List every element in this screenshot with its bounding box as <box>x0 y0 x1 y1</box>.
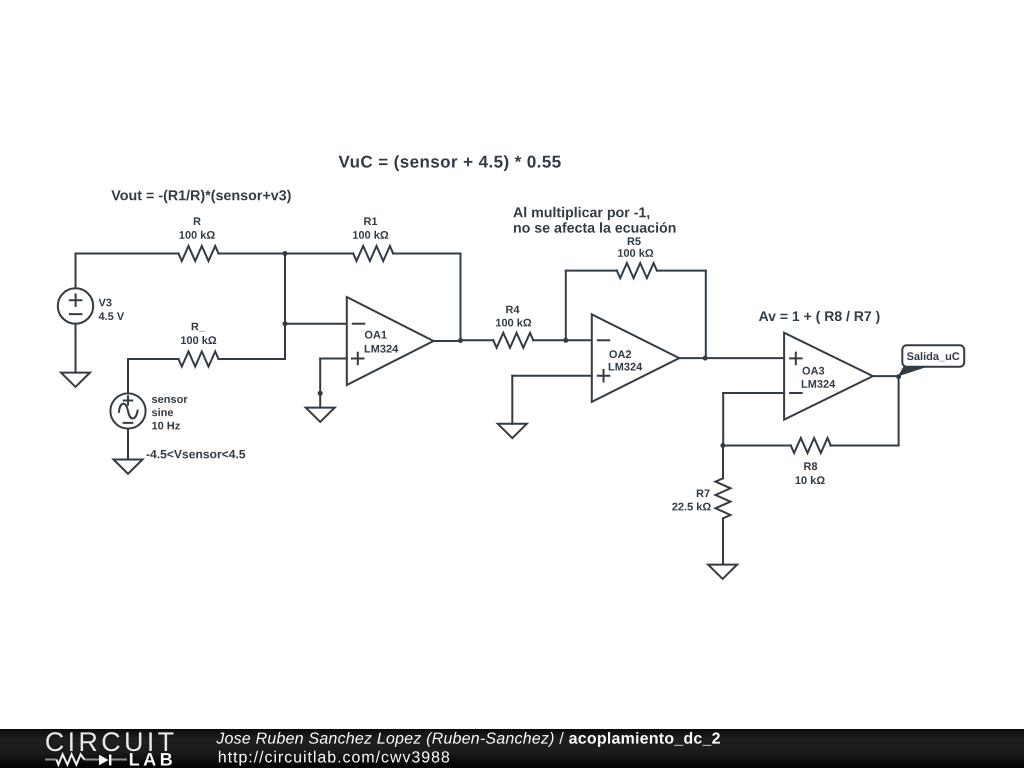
resistor R <box>179 246 219 261</box>
annotation Av equation <box>759 311 880 324</box>
wire sensor to R_ <box>129 358 179 360</box>
wire R8 to R7 node <box>723 445 791 447</box>
label R1 <box>364 217 377 225</box>
annotation VuC equation <box>339 155 561 171</box>
wire node A vertical <box>284 254 286 360</box>
logo CIRCUIT <box>46 732 173 751</box>
label R5 <box>628 237 641 245</box>
wire R5 to right column <box>657 270 706 272</box>
label sensor sine <box>152 408 173 416</box>
label R4 <box>506 306 519 314</box>
label OA3 part <box>802 380 836 388</box>
wire OA1 output to R4 <box>461 339 494 341</box>
junction dot OA1 ground <box>318 391 323 396</box>
resistor R7 vertical <box>722 446 724 478</box>
label R_ <box>192 323 205 332</box>
wire V3 bottom lead <box>75 324 77 373</box>
resistor R5 <box>617 263 657 278</box>
label R8 <box>804 462 817 470</box>
flag text Salida_uC <box>907 352 960 361</box>
wire V3 top lead <box>75 254 77 289</box>
junction OA1 output <box>458 338 463 343</box>
label OA1 <box>365 331 387 339</box>
label R7 <box>697 490 710 498</box>
wire sensor bottom lead <box>127 429 129 460</box>
junction OA2 output <box>703 356 708 361</box>
label sensor freq <box>152 422 180 430</box>
flag Salida_uC <box>902 345 964 366</box>
junction OA3 output <box>896 374 901 379</box>
value R7 <box>672 502 711 510</box>
wire top net V3 to R <box>76 253 179 255</box>
wire vertical down to OA2 output <box>705 271 707 359</box>
footer url line <box>219 751 449 766</box>
wire OA3 output <box>873 375 899 377</box>
wire OA1 non-inverting input <box>320 358 347 360</box>
wire vertical R1 to OA1 output <box>460 254 462 341</box>
wire node B to OA1 inverting input <box>285 323 347 325</box>
label R <box>194 217 201 225</box>
resistor R4 <box>493 333 533 348</box>
value R1 <box>353 231 388 239</box>
wire R8 right lead <box>830 445 898 447</box>
wire OA2 non-inverting input <box>512 375 592 377</box>
op-amp OA1 <box>347 297 434 385</box>
wire OA1 output <box>434 340 461 342</box>
footer title line <box>216 732 720 747</box>
wire OA3 inverting input branch <box>723 392 784 394</box>
value R4 <box>496 318 531 326</box>
annotation Vout equation <box>111 190 290 203</box>
value R5 <box>618 249 653 257</box>
junction R4-R5 <box>563 338 568 343</box>
label OA2 <box>609 350 631 358</box>
voltage source V3 <box>58 288 93 323</box>
label OA2 part <box>609 363 643 371</box>
wire R1 to output column <box>393 253 460 255</box>
junction R8-R7 <box>720 443 725 448</box>
wire output vertical to R8 <box>898 377 900 446</box>
ground under R7 <box>708 565 737 579</box>
label V3 <box>99 299 112 307</box>
logo LAB <box>130 753 172 765</box>
wire OA2 output to OA3 <box>679 357 784 359</box>
wire R_ to node column <box>219 358 286 360</box>
op-amp OA2 <box>592 314 679 402</box>
ground under OA1 <box>306 408 335 422</box>
wire sensor top lead <box>127 359 129 394</box>
label OA1 part <box>365 345 399 353</box>
value R <box>180 231 215 239</box>
logo resistor-diode <box>45 759 127 761</box>
annotation multiplicar line1 <box>513 207 649 220</box>
label sensor <box>152 397 188 403</box>
annotation Vsensor range <box>147 450 246 458</box>
label OA3 <box>803 367 825 375</box>
wire R to node A <box>219 253 354 255</box>
op-amp OA3 <box>784 333 873 420</box>
value V3 <box>99 312 124 320</box>
ground under sensor <box>114 460 143 474</box>
value R8 <box>796 476 825 484</box>
ground under V3 <box>61 373 90 387</box>
voltage source sensor <box>110 393 145 428</box>
resistor R1 <box>353 246 393 261</box>
resistor R8 <box>791 438 831 453</box>
ground under OA2 <box>498 424 527 438</box>
resistor R_ <box>179 352 219 367</box>
wire R5 branch up <box>565 271 567 341</box>
wire R4 to OA2 inverting input <box>533 339 592 341</box>
junction node A <box>283 251 288 256</box>
wire to R5 <box>566 270 617 272</box>
value R_ <box>181 336 216 344</box>
junction node B <box>283 321 288 326</box>
annotation multiplicar line2 <box>514 222 676 233</box>
